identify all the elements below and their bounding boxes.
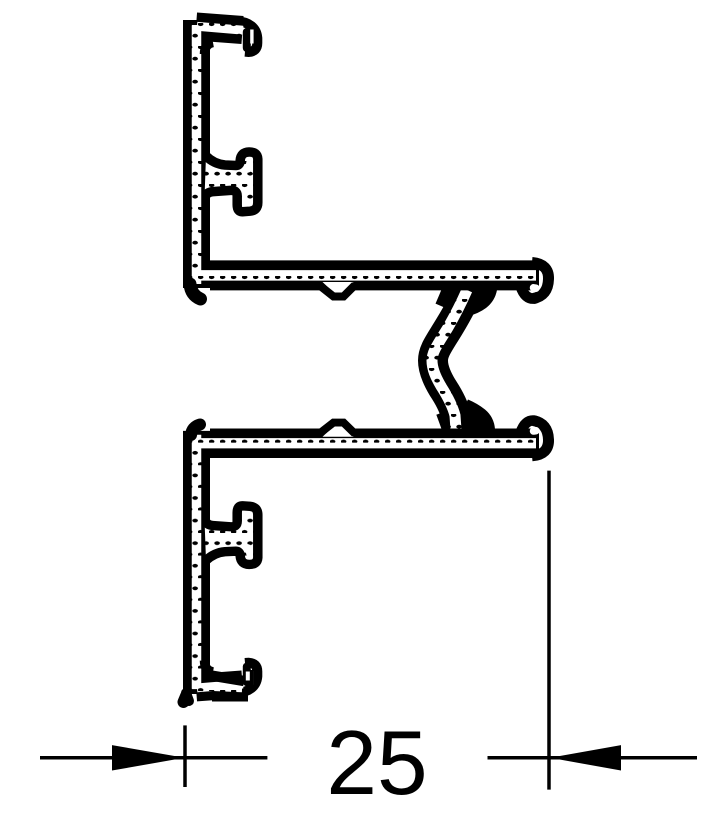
wire: web core — [432, 290, 467, 430]
extension line right — [547, 471, 551, 790]
node: top junction foot — [190, 284, 201, 299]
node: bottom junction foot — [191, 425, 200, 436]
profile bottom half (mirrored) — [196, 420, 549, 694]
node: bottom hook slot white — [246, 672, 250, 681]
extension line left — [183, 725, 187, 787]
dimension line right segment — [488, 756, 698, 760]
node: bottom cap flat edge — [212, 693, 248, 702]
svg-text:25: 25 — [326, 713, 427, 814]
wire: web black — [433, 287, 469, 431]
dimension line left segment — [40, 756, 267, 760]
node: web bottom knee fan — [450, 400, 495, 441]
node: bottom cap corner tail — [186, 693, 189, 701]
node: bottom under-cap core — [207, 688, 242, 690]
node: bottom cap corner tail blob — [184, 696, 187, 702]
node: web top left fillet — [441, 287, 449, 306]
arrow right — [550, 745, 621, 770]
profile top half — [196, 20, 549, 299]
node: bottom hook slot shift: black cover — [250, 670, 254, 686]
arrow left — [112, 745, 185, 770]
node: bottom bar2 sloped — [211, 676, 244, 682]
node: web bottom left fillet — [441, 413, 448, 431]
node: web top knee fan — [452, 278, 497, 316]
